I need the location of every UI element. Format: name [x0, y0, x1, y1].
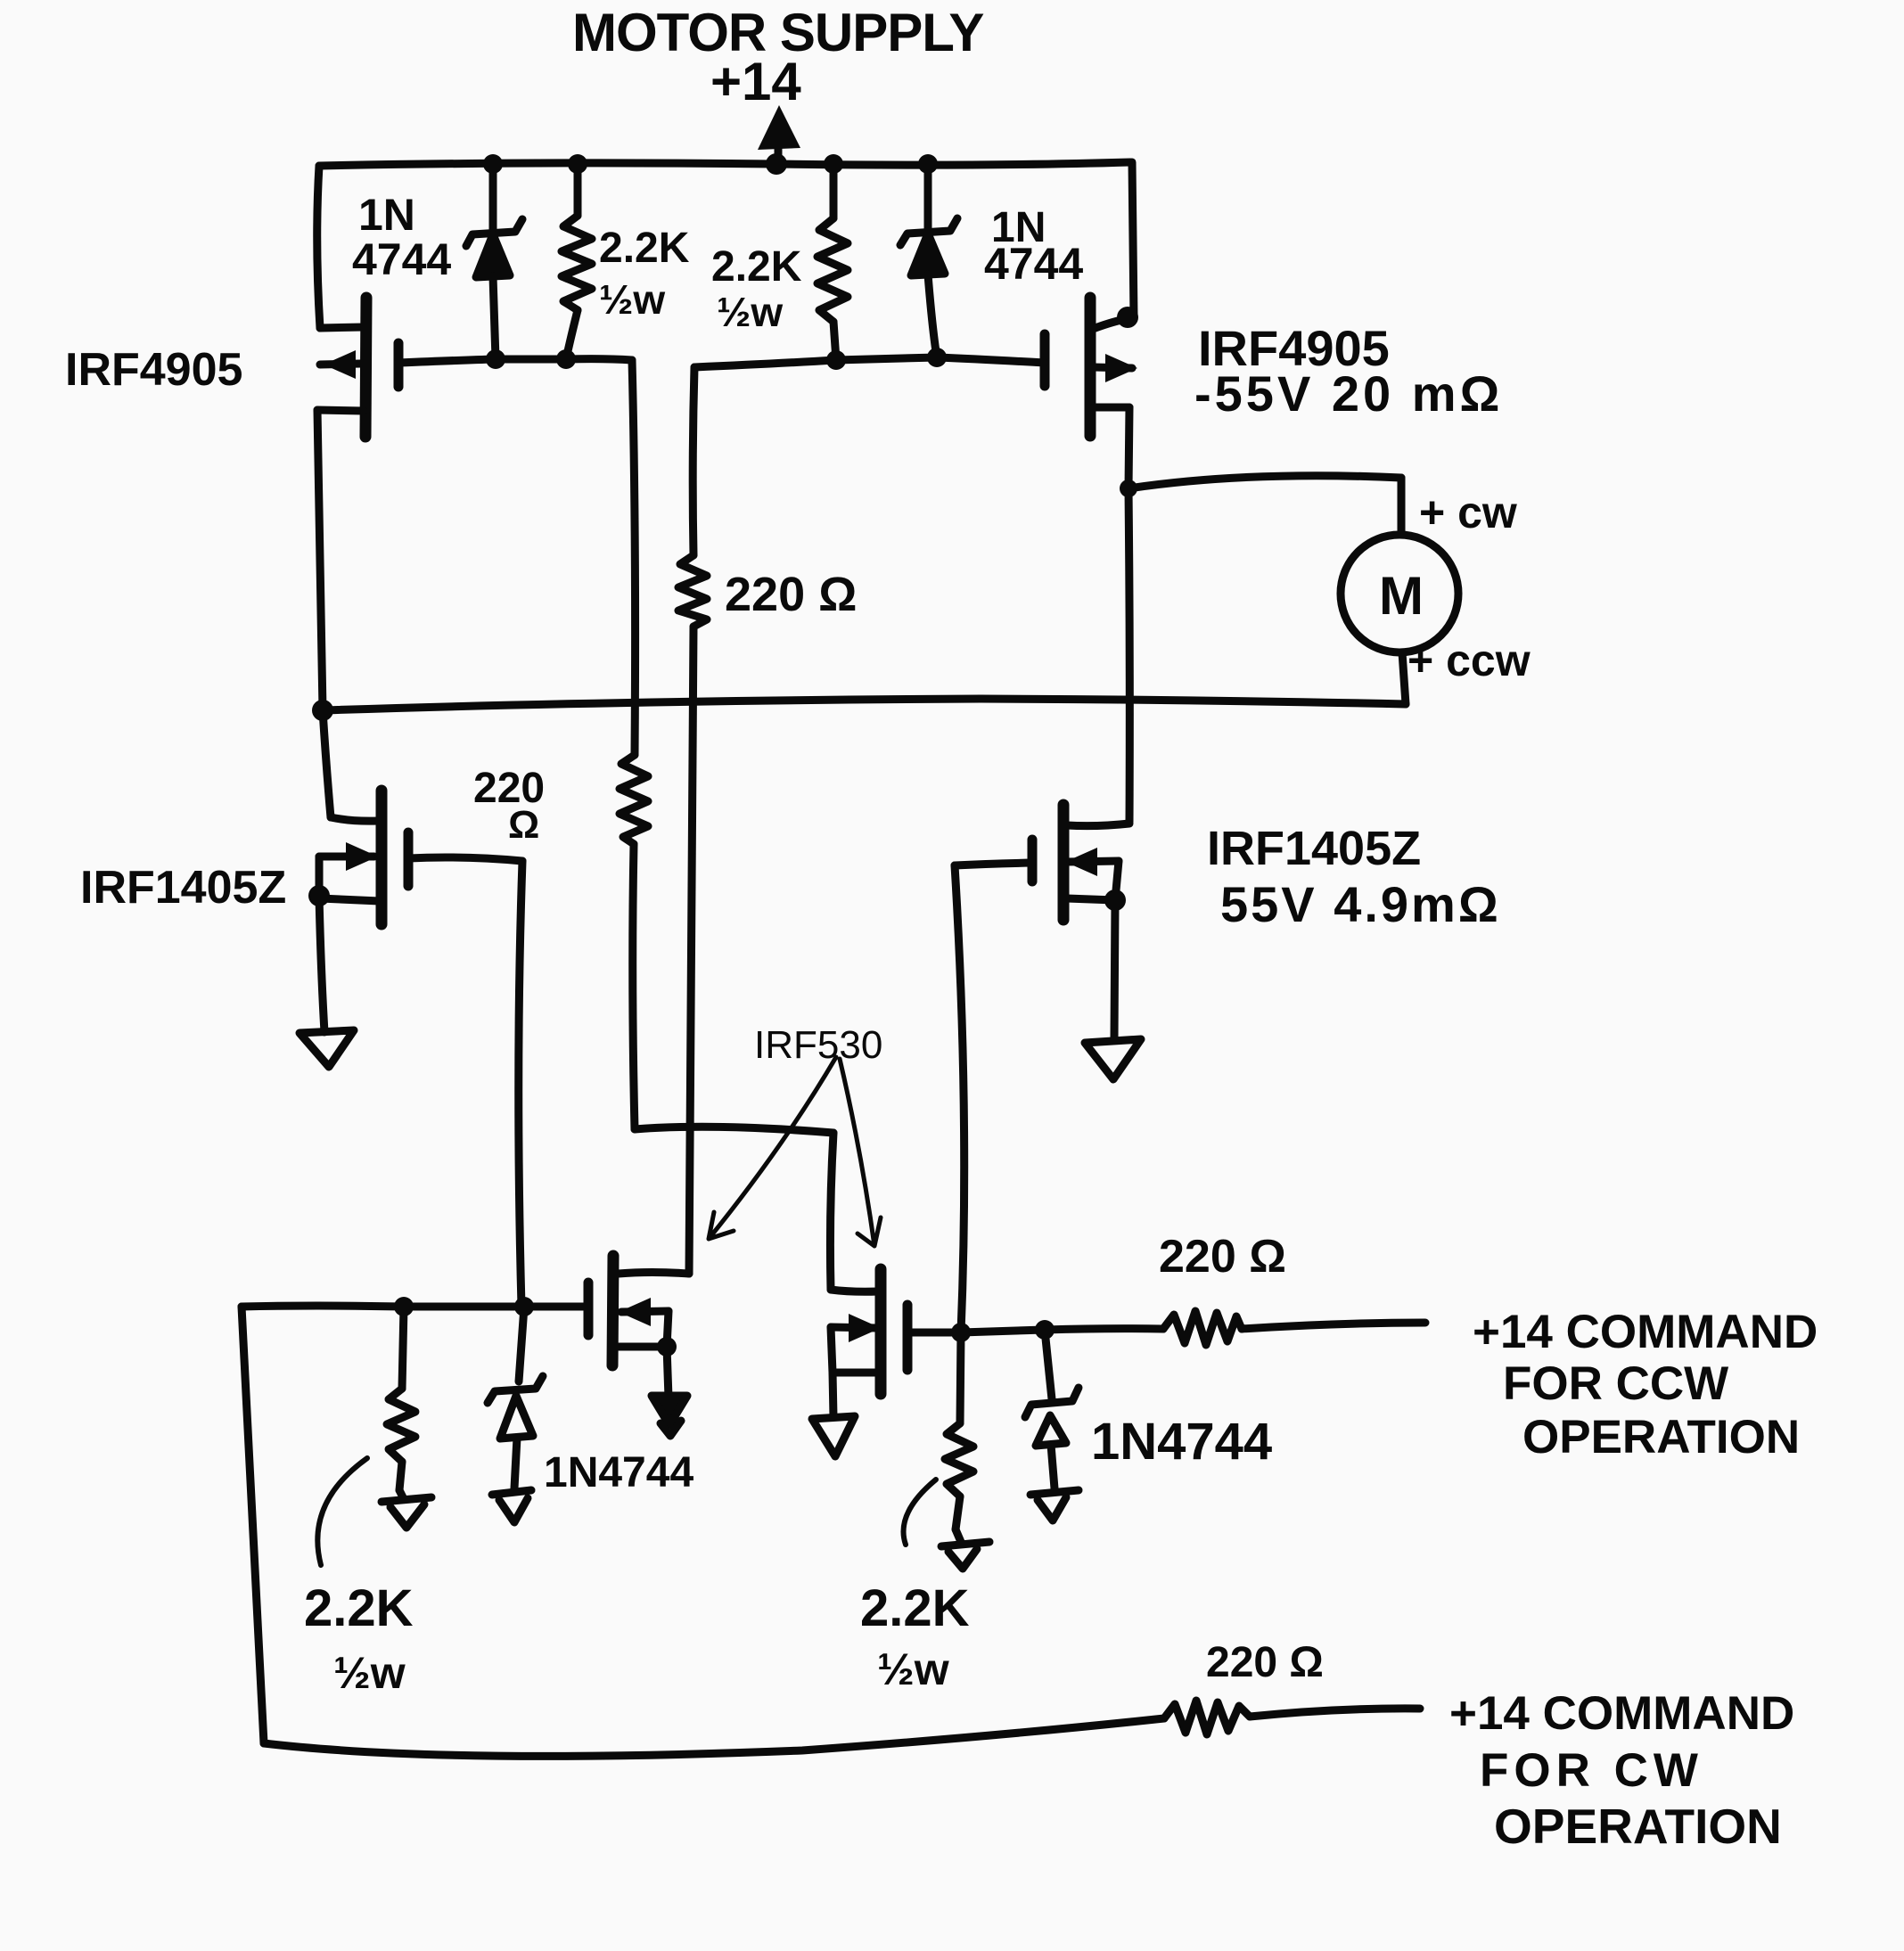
zener D2 lower lead	[928, 275, 937, 357]
svg-text:+14 COMMAND: +14 COMMAND	[1449, 1687, 1794, 1740]
transistor Q3 arrowhead (points right)	[346, 842, 378, 871]
wire: CW command lead	[1250, 1709, 1420, 1717]
svg-text:55V 4.9mΩ: 55V 4.9mΩ	[1220, 876, 1501, 932]
junction dot bus 4	[824, 154, 843, 174]
transistor Q6 IRF530 left: drain stub	[619, 1273, 689, 1275]
transistor Q2 IRF4905 right: gate bar	[1040, 334, 1050, 386]
svg-text:-55V 20 mΩ: -55V 20 mΩ	[1194, 365, 1503, 422]
zener D3 1N4744 bottom left: lead	[519, 1307, 524, 1381]
svg-text:½w: ½w	[717, 289, 783, 335]
motor M circle	[1341, 535, 1458, 652]
svg-text:½w: ½w	[877, 1644, 949, 1694]
ground arrow below R3	[382, 1490, 431, 1528]
junction dot right IRF1405Z source	[1104, 889, 1126, 911]
wire: right gate line with 220 ohm dropper	[694, 357, 1045, 367]
transistor Q2 arrowhead (points right)	[1105, 354, 1137, 382]
junction dot bus 5	[918, 154, 938, 174]
zener D3 lower lead	[514, 1438, 517, 1488]
resistor R4 2.2K bottom mid: lead	[960, 1332, 961, 1423]
svg-text:2.2K: 2.2K	[860, 1579, 970, 1637]
transistor Q6 IRF530 left: source stub	[619, 1343, 667, 1351]
transistor Q3 IRF1405Z left: channel bar	[376, 791, 388, 924]
transistor Q6 IRF530 left: channel bar	[612, 1256, 613, 1365]
wire: vertical from right gate line down to 220 ohm	[693, 367, 694, 555]
power arrow +14 motor supply	[775, 144, 783, 164]
zener D1 lower lead	[493, 276, 496, 359]
wire: bottom left node line	[242, 1306, 588, 1307]
resistor 220 ohm (right gate pull, vertical)	[678, 555, 707, 627]
wire: left gate line to 220 ohm dropper	[398, 359, 632, 363]
svg-text:½w: ½w	[333, 1648, 406, 1698]
resistor R1 2.2K squiggle	[562, 216, 592, 310]
transistor Q5 arrowhead (points right)	[849, 1314, 881, 1342]
transistor Q5 IRF530 right: drain stub	[831, 1290, 878, 1291]
zener D2 cathode bar	[900, 218, 957, 245]
svg-text:+ cw: + cw	[1419, 488, 1517, 537]
svg-text:+14: +14	[710, 52, 801, 111]
wire: below 220 ohm down to jog	[633, 844, 635, 1129]
junction dot bus 1	[483, 154, 503, 174]
wire: right IRF4905 drain vertical	[1128, 407, 1129, 822]
resistor R4 2.2K squiggle	[945, 1423, 973, 1496]
zener D2 1N4744 right top: lead	[924, 164, 932, 232]
pointer arrow from IRF530 label to right IRF530	[840, 1059, 881, 1246]
transistor Q3 IRF1405Z left: gate bar	[404, 832, 414, 886]
wire: right IRF4905 source vertical	[1132, 162, 1134, 318]
svg-text:2.2K: 2.2K	[599, 225, 690, 272]
junction dot bottom node 3	[951, 1323, 971, 1342]
wire: left IRF1405Z source to ground	[319, 857, 324, 1032]
transistor Q1 IRF4905 left: drain stub	[317, 410, 364, 411]
zener D3 cathode bar	[488, 1376, 543, 1403]
ground: right IRF530 (open triangle)	[812, 1416, 855, 1456]
junction dot right gate line a	[826, 350, 846, 370]
wire: right IRF1405Z gate line	[955, 863, 1032, 865]
ground: left IRF530 (solid arrow)	[652, 1396, 687, 1425]
svg-text:OPERATION: OPERATION	[1522, 1411, 1800, 1463]
power arrowhead +14	[758, 105, 800, 150]
transistor Q4 IRF1405Z right: body stub with arrow tail	[1067, 861, 1119, 862]
svg-text:2.2K: 2.2K	[711, 243, 802, 291]
wire: jog right at y1267	[635, 1127, 833, 1133]
transistor Q1 arrowhead (points left)	[324, 350, 356, 379]
resistor R2 2.2K mid top: lead	[830, 166, 838, 218]
wire: motor top to right half-bridge node	[1128, 476, 1401, 488]
transistor Q4 arrowhead (points left)	[1065, 848, 1097, 876]
wire: below 220 ohm down to left IRF530 drain	[689, 627, 693, 1274]
junction dot motor return left	[312, 700, 333, 721]
transistor Q3 IRF1405Z left: body stub with arrow tail	[319, 853, 374, 861]
transistor Q3 IRF1405Z left: drain stub	[331, 817, 378, 821]
zener D1 body (filled)	[476, 234, 510, 277]
zener D4 body (open)	[1036, 1415, 1066, 1446]
junction dot bus 3 (+14)	[766, 153, 787, 175]
junction dot bus 2	[568, 154, 587, 174]
resistor R3 2.2K bottom left: lead	[402, 1307, 404, 1389]
transistor Q4 IRF1405Z right: drain stub	[1067, 824, 1129, 826]
junction dot right IRF4905 source	[1117, 307, 1138, 328]
svg-text:2.2K: 2.2K	[304, 1579, 414, 1637]
wire: CCW command lead	[1242, 1323, 1425, 1329]
resistor R1 lower lead	[566, 310, 578, 359]
zener D4 cathode bar	[1025, 1388, 1079, 1417]
transistor Q2 IRF4905 right: body stub	[1094, 367, 1132, 368]
wire: down to right IRF530 drain	[830, 1133, 833, 1290]
svg-text:IRF1405Z: IRF1405Z	[1207, 822, 1421, 875]
svg-text:220 Ω: 220 Ω	[725, 568, 857, 621]
junction dot bottom node 1	[394, 1297, 414, 1316]
zener D2 body (filled)	[911, 234, 945, 275]
zener D1 1N4744 left top: lead	[489, 166, 497, 232]
wire: +14 supply bus	[319, 162, 1130, 166]
resistor 220 ohm (left gate pull, vertical)	[620, 755, 648, 844]
svg-text:4744: 4744	[352, 234, 451, 284]
wire: right IRF530 source to ground	[831, 1327, 833, 1417]
ground arrow below D4	[1030, 1490, 1079, 1521]
svg-text:+14 COMMAND: +14 COMMAND	[1473, 1306, 1818, 1358]
wire: gate drop to bottom node (left)	[519, 861, 522, 1307]
wire: vertical from left gate line down to 220 ohm	[632, 360, 636, 755]
transistor Q4 IRF1405Z right: source stub	[1067, 898, 1115, 900]
transistor Q2 IRF4905 right: channel bar	[1085, 298, 1096, 436]
svg-text:220 Ω: 220 Ω	[1159, 1231, 1286, 1283]
svg-text:IRF1405Z: IRF1405Z	[80, 862, 286, 914]
junction dot left gate line b	[556, 349, 576, 369]
svg-text:Ω: Ω	[508, 803, 539, 847]
svg-text:M: M	[1379, 566, 1424, 626]
wire: left IRF4905 drain vertical	[317, 410, 331, 817]
arc callout for bottom-left 2.2K	[317, 1458, 367, 1565]
junction dot left IRF1405Z source	[308, 885, 330, 906]
ground: left IRF530 flick	[661, 1421, 681, 1436]
wire: right IRF530 gate node line	[907, 1329, 1163, 1332]
resistor R4 lower lead	[956, 1496, 960, 1529]
zener D3 body (open)	[500, 1396, 533, 1439]
transistor Q4 IRF1405Z right: gate bar	[1028, 840, 1038, 881]
pointer arrow from IRF530 label to left IRF530	[709, 1057, 836, 1239]
resistor R3 lower lead	[399, 1462, 402, 1490]
resistor R2 lower lead	[833, 322, 836, 360]
wire: bottom CW command line	[264, 1718, 1164, 1756]
ground: right IRF1405Z (open triangle)	[1085, 1039, 1141, 1079]
junction dot left gate line a	[486, 349, 505, 369]
transistor Q5 IRF530 right: channel bar	[875, 1269, 887, 1394]
transistor Q4 IRF1405Z right: channel bar	[1058, 805, 1070, 920]
wire: gate drop to bottom node (right)	[955, 865, 964, 1332]
zener D1 cathode bar	[466, 219, 522, 246]
ground: left IRF1405Z (open triangle)	[300, 1030, 354, 1067]
wire: left IRF4905 source vertical	[317, 166, 320, 328]
wire: left bracket down from node line	[242, 1307, 264, 1743]
ground arrow below R4	[941, 1529, 989, 1569]
svg-text:FOR CCW: FOR CCW	[1503, 1357, 1728, 1410]
svg-text:220 Ω: 220 Ω	[1206, 1639, 1324, 1686]
svg-text:4744: 4744	[984, 239, 1083, 289]
resistor R1 2.2K left top: lead	[574, 166, 582, 216]
zener D4 1N4744 bottom mid: lead	[1045, 1330, 1052, 1399]
zener D4 lower lead	[1051, 1445, 1055, 1488]
svg-text:OPERATION: OPERATION	[1494, 1799, 1782, 1854]
transistor Q2 IRF4905 right: drain stub	[1094, 404, 1129, 412]
transistor Q5 IRF530 right: gate bar	[903, 1305, 913, 1370]
resistor R2 2.2K squiggle	[817, 218, 848, 322]
svg-text:+ ccw: + ccw	[1407, 635, 1531, 685]
transistor Q6 IRF530 left: body stub with arrow tail	[621, 1311, 669, 1312]
transistor Q5 IRF530 right: source stub	[833, 1369, 878, 1377]
transistor Q5 IRF530 right: body stub with arrow tail	[831, 1327, 877, 1328]
svg-text:1N: 1N	[358, 190, 415, 240]
junction dot right drain node	[1120, 480, 1137, 497]
wire: right IRF1405Z source to ground	[1114, 861, 1119, 1039]
svg-text:1N4744: 1N4744	[544, 1449, 693, 1496]
ground arrow below D3	[492, 1490, 531, 1522]
svg-text:IRF530: IRF530	[754, 1023, 882, 1067]
transistor Q1 IRF4905 left: gate bar	[394, 343, 404, 387]
junction dot right gate line b	[927, 348, 947, 367]
transistor Q2 IRF4905 right: source stub	[1093, 318, 1130, 329]
transistor Q3 IRF1405Z left: source stub	[320, 898, 380, 901]
transistor Q1 IRF4905 left: source stub	[320, 327, 363, 328]
arc callout for bottom-mid 2.2K	[904, 1480, 936, 1545]
wire: motor bottom lead	[1402, 652, 1406, 704]
svg-text:IRF4905: IRF4905	[65, 344, 242, 396]
svg-text:½w: ½w	[599, 276, 665, 323]
junction dot bottom node 2	[514, 1297, 534, 1316]
transistor Q1 IRF4905 left: body stub	[320, 364, 361, 365]
svg-text:1N4744: 1N4744	[1091, 1413, 1272, 1471]
svg-text:FOR CW: FOR CW	[1480, 1744, 1703, 1797]
transistor Q6 IRF530 left: gate bar	[584, 1283, 594, 1335]
wire: motor return (CCW) long horizontal	[323, 699, 1406, 710]
resistor R3 2.2K squiggle	[387, 1389, 415, 1462]
transistor Q1 IRF4905 left: channel bar	[365, 298, 366, 437]
wire: left IRF1405Z gate line	[408, 857, 522, 861]
wire: left IRF530 source to ground	[667, 1311, 669, 1398]
junction dot bottom node 4	[1035, 1320, 1055, 1340]
transistor Q6 arrowhead (points left)	[619, 1298, 651, 1326]
junction dot left IRF530 source	[657, 1337, 677, 1357]
resistor 220 ohm (CCW command, horizontal)	[1163, 1311, 1242, 1345]
resistor 220 ohm (CW command, horizontal)	[1164, 1701, 1250, 1734]
wire: motor top lead	[1398, 478, 1406, 535]
